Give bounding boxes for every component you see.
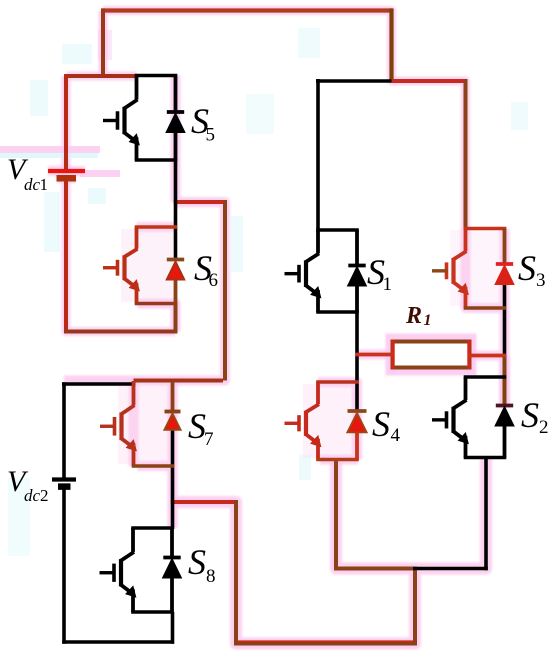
resistor R1 body bbox=[393, 340, 470, 369]
wire: Vdc1+ horizontal to S5 bbox=[64, 74, 138, 78]
svg-text:3: 3 bbox=[536, 270, 546, 291]
label S1 bbox=[367, 252, 392, 295]
wire: S8 bottom vertical bbox=[171, 612, 175, 644]
wire: horizontal into S7 top bbox=[134, 379, 224, 383]
transistor S2 (IGBT) bbox=[432, 377, 468, 458]
label S4 bbox=[372, 404, 401, 446]
wire: output bottom horizontal bbox=[234, 642, 415, 646]
wire: S3 diode branch bbox=[503, 229, 507, 265]
wire: S4 output horizontal bbox=[334, 567, 417, 571]
diode S1 (anti-parallel) bbox=[348, 266, 365, 286]
wire: S6 top horizontal bbox=[135, 225, 178, 229]
wire: Vdc2+ horizontal to S7 bbox=[62, 382, 136, 386]
label R1 bbox=[405, 303, 432, 329]
transistor S8 (IGBT) bbox=[100, 528, 136, 612]
wire: Vdc2 left rail upper bbox=[62, 382, 66, 477]
wire: output vertical left bbox=[234, 500, 238, 644]
wire: S6 diode branch bbox=[174, 279, 178, 304]
wire: S4 diode branch bbox=[355, 430, 359, 460]
diode S4 (anti-parallel) bbox=[348, 411, 367, 432]
wire: S8 bottom horizontal bbox=[131, 610, 174, 614]
svg-text:2: 2 bbox=[40, 486, 49, 505]
wire: S1 bottom horizontal bbox=[316, 310, 359, 314]
svg-text:S: S bbox=[372, 404, 390, 444]
wire: S7 diode branch bbox=[171, 381, 175, 412]
wire: S6 bottom horizontal bbox=[135, 302, 178, 306]
wire: output bottom red edge bbox=[238, 640, 413, 642]
label Vdc2 bbox=[7, 465, 49, 505]
diode S8 (anti-parallel) bbox=[163, 558, 180, 578]
wire: S3 top horizontal bbox=[464, 227, 507, 231]
svg-text:S: S bbox=[188, 542, 206, 582]
battery Vdc1 (+ plate) bbox=[48, 169, 85, 173]
wire: top bus horizontal (Vdc1+ to H-bridge) bbox=[103, 8, 392, 12]
wire: top bus right vertical bbox=[389, 8, 393, 81]
wire: S2 diode branch bbox=[503, 425, 507, 458]
battery Vdc2 (- plate) bbox=[58, 483, 71, 490]
wire: S2 emitter drop vertical bbox=[484, 456, 488, 570]
label S7 bbox=[188, 406, 214, 450]
wire: S1 top horizontal bbox=[316, 228, 359, 232]
svg-text:8: 8 bbox=[206, 566, 216, 587]
wire: S8 top horizontal bbox=[131, 526, 174, 530]
diode S3 (anti-parallel) bbox=[496, 264, 513, 284]
svg-text:2: 2 bbox=[539, 417, 549, 438]
wire: S6 bottom to Vdc1- vertical bbox=[174, 302, 178, 334]
label S8 bbox=[188, 542, 216, 587]
wire: S1 collector vertical bbox=[316, 79, 320, 230]
wire: Vdc1- horizontal to S6 bottom bbox=[64, 330, 177, 334]
svg-text:dc: dc bbox=[24, 175, 41, 194]
wire: S1 bottom to S4 vertical (through R1 node) bbox=[355, 312, 359, 411]
diode S6 (anti-parallel) bbox=[167, 260, 184, 280]
svg-text:dc: dc bbox=[24, 486, 41, 505]
label S6 bbox=[194, 248, 218, 291]
transistor S6 (IGBT) bbox=[103, 227, 139, 304]
wire: node top-left vertical drop bbox=[101, 8, 105, 77]
wire: Vdc2 left rail lower bbox=[62, 489, 66, 644]
wire: S4 output vertical bbox=[334, 458, 338, 571]
label S5 bbox=[191, 101, 215, 146]
svg-text:1: 1 bbox=[40, 175, 49, 194]
wire: S4 bottom horizontal bbox=[316, 458, 359, 462]
svg-text:R: R bbox=[405, 303, 422, 329]
wire: S4 top horizontal bbox=[316, 380, 359, 384]
diode S7 (anti-parallel) bbox=[165, 412, 181, 430]
svg-text:1: 1 bbox=[383, 274, 393, 295]
wire: S2 top horizontal bbox=[464, 375, 507, 379]
wire: S7 bottom horizontal bbox=[132, 464, 175, 468]
wire: S5 to S6 vertical bbox=[174, 160, 178, 260]
wire: S5 bottom horizontal bbox=[135, 158, 178, 162]
wire: R1 node to S2 vertical bbox=[503, 356, 507, 407]
svg-text:S: S bbox=[518, 248, 536, 288]
wire: S5 diode branch bbox=[174, 76, 178, 161]
svg-text:4: 4 bbox=[391, 425, 401, 446]
wire: Vdc1 left rail lower bbox=[64, 181, 68, 334]
wire: S8 diode branch bbox=[170, 528, 174, 612]
wire: R1 left lead bbox=[356, 353, 395, 357]
transistor S1 (IGBT) bbox=[285, 230, 321, 312]
label S2 bbox=[521, 395, 549, 438]
transistor S7 (IGBT) bbox=[100, 381, 136, 466]
wire: S2 output horizontal bbox=[413, 567, 488, 571]
wire: cell1 output vertical bbox=[223, 200, 227, 381]
wire: bottom step vertical bbox=[413, 567, 417, 646]
wire: right rail vertical to S3 bbox=[464, 79, 468, 230]
wire: S5 top horizontal bbox=[135, 74, 178, 78]
diode S5 (anti-parallel) bbox=[167, 112, 184, 132]
svg-text:6: 6 bbox=[209, 270, 219, 291]
battery Vdc1 (- plate) bbox=[57, 175, 77, 182]
wire: S3 bottom horizontal bbox=[464, 306, 507, 310]
wire: R1 right lead bbox=[468, 354, 506, 358]
battery Vdc2 (+ plate) bbox=[52, 477, 76, 481]
svg-text:7: 7 bbox=[204, 429, 214, 450]
label Vdc1 bbox=[7, 153, 48, 194]
svg-text:5: 5 bbox=[206, 125, 216, 146]
wire: S2 bottom horizontal bbox=[464, 456, 507, 460]
transistor S3 (IGBT) bbox=[432, 229, 468, 309]
transistor S5 (IGBT) bbox=[103, 76, 139, 161]
wire: S7/S8 midpoint output horizontal bbox=[171, 500, 236, 504]
wire: H-bridge top black horizontal bbox=[316, 79, 394, 83]
diode S2 (anti-parallel) bbox=[496, 406, 513, 426]
wire: cell1 output node horizontal bbox=[174, 200, 225, 204]
wire: top bus to S3 vertical bbox=[392, 79, 466, 83]
svg-text:1: 1 bbox=[424, 312, 432, 329]
wire: S7 to S8 vertical bbox=[171, 430, 175, 529]
wire: S7 top horizontal bbox=[0, 0, 1, 1]
transistor S4 (IGBT) bbox=[285, 382, 321, 460]
wire: Vdc2- bottom horizontal bbox=[62, 640, 174, 644]
label S3 bbox=[518, 248, 546, 291]
wire: S3 bottom to R1 node vertical bbox=[503, 281, 507, 357]
svg-text:S: S bbox=[521, 395, 539, 435]
wire: S1 diode branch bbox=[355, 230, 359, 312]
wire: Vdc1 left rail upper bbox=[64, 74, 68, 170]
